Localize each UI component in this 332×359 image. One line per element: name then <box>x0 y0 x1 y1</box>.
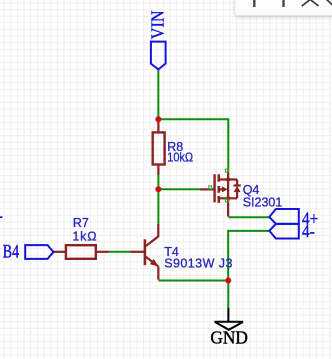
svg-text:B4: B4 <box>3 241 19 263</box>
svg-text:VIN: VIN <box>148 10 168 39</box>
svg-text:SI2301: SI2301 <box>243 195 283 209</box>
svg-text:S9013W J3: S9013W J3 <box>164 257 233 271</box>
svg-text:1kΩ: 1kΩ <box>72 230 97 244</box>
svg-text:R7: R7 <box>73 216 89 230</box>
svg-text:4-: 4- <box>302 221 315 242</box>
svg-text:10kΩ: 10kΩ <box>167 151 193 165</box>
svg-text:GND: GND <box>210 327 248 348</box>
